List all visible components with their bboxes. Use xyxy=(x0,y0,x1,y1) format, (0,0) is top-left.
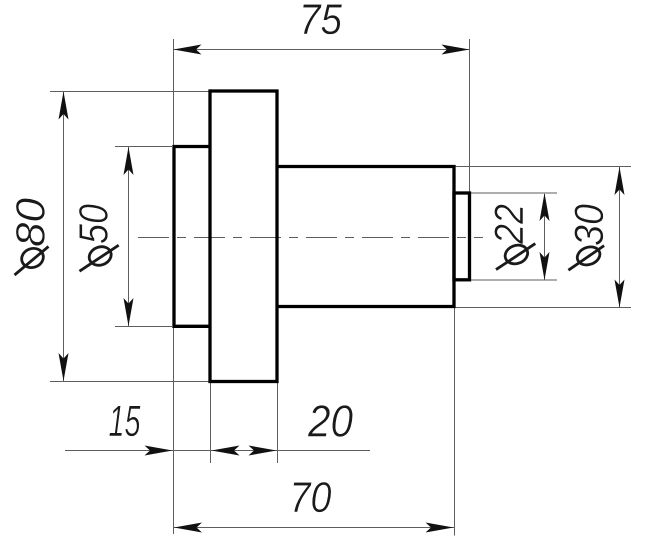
arrowhead phi80 bottom xyxy=(59,353,69,381)
dimension line 15/20 xyxy=(65,450,370,452)
arrowhead phi80 top xyxy=(59,92,69,120)
extension line phi30 top (y=166.5) xyxy=(455,166,631,168)
arrowhead phi22 top xyxy=(540,193,550,221)
dimension line phi22 xyxy=(544,194,546,280)
arrowhead phi50 top xyxy=(124,147,134,175)
part: end step (phi22) outline xyxy=(454,193,470,280)
extension line left (x=173.5 for 75/15/70) xyxy=(173,39,175,534)
arrowhead phi22 bottom xyxy=(540,252,550,280)
diameter symbol of phi30 xyxy=(568,244,604,270)
dimension text phi30 digits (rotated) xyxy=(574,204,603,245)
arrowhead 20 left (tip at x=211.5) xyxy=(212,446,240,456)
diameter symbol of phi50 xyxy=(80,244,119,271)
dimension line phi50 xyxy=(128,147,130,326)
arrowhead 15 (outside, tip at x=172.5) xyxy=(145,446,173,456)
extension line phi50 bottom (y=326.5) xyxy=(115,326,172,328)
dimension text 75 xyxy=(303,4,342,34)
arrowhead 75 left xyxy=(174,45,202,55)
part: left step (phi50 hub) outline xyxy=(174,147,210,327)
arrowhead 20 right (tip at x=276.5) xyxy=(249,446,277,456)
arrowhead 70 left xyxy=(174,523,202,533)
extension line phi30 bottom (y=307) xyxy=(450,307,631,309)
extension line phi50 top (y=146.5) xyxy=(115,146,172,148)
part: flange (phi80) outline xyxy=(210,91,277,382)
extension line phi80 top (y=91) xyxy=(50,91,209,93)
dimension line phi80 xyxy=(63,92,65,381)
dimension line 70 xyxy=(174,527,454,529)
diameter symbol of phi80 xyxy=(15,245,49,275)
extension line phi22 bottom (y=279.5) xyxy=(470,279,557,281)
extension line flange-left (x=210.5 for 20) xyxy=(210,383,212,463)
dimension text phi80 digits (rotated) xyxy=(16,198,45,245)
arrowhead 75 right xyxy=(442,45,470,55)
centerline (dash-dot axis) xyxy=(138,237,483,239)
part: shaft (phi30) outline xyxy=(277,167,454,307)
extension line flange-right (x=277.5 for 20) xyxy=(277,383,279,463)
extension line phi80 bottom (y=381.5) xyxy=(50,381,209,383)
diameter symbol of phi22 xyxy=(496,242,535,269)
dimension text 70 xyxy=(293,482,331,512)
arrowhead 70 right xyxy=(426,523,454,533)
dimension text 20 xyxy=(308,405,353,437)
arrowhead phi30 top xyxy=(615,167,625,195)
dimension line phi30 xyxy=(619,167,621,307)
dimension text 15 xyxy=(109,406,140,437)
extension line phi22 top (y=194.3) xyxy=(470,192,557,194)
extension line right of small step (x=469.5 for 75) xyxy=(469,39,471,194)
extension line shaft-right (x=454.5 for 70) xyxy=(454,308,456,536)
dimension text phi50 digits (rotated) xyxy=(79,204,108,243)
dimension text phi22 digits (rotated) xyxy=(494,205,523,245)
dimension line 75 xyxy=(174,49,469,51)
arrowhead phi30 bottom xyxy=(615,280,625,308)
arrowhead phi50 bottom xyxy=(124,298,134,326)
